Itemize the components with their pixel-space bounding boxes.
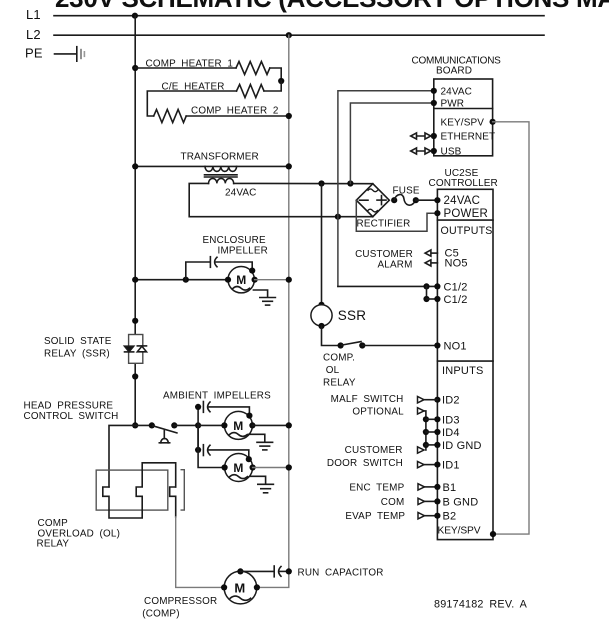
svg-text:OUTPUTS: OUTPUTS (441, 225, 493, 237)
comm board divider (434, 108, 493, 110)
node SSR coil bottom (318, 323, 324, 329)
wire compressor top to run cap (240, 570, 274, 572)
wire switch row left to OL (109, 425, 135, 487)
wire L2 (54, 34, 544, 36)
svg-text:BOARD: BOARD (436, 66, 472, 77)
svg-text:24VAC: 24VAC (441, 87, 472, 98)
node ambient1 right bus (286, 422, 292, 428)
svg-text:USB: USB (441, 147, 462, 158)
wire ambient1 ground lead (249, 434, 265, 442)
wire enclosure ground lead (253, 290, 267, 297)
wire motor3 right to bus (253, 467, 289, 469)
svg-text:POWER: POWER (444, 208, 488, 220)
svg-text:L2: L2 (26, 27, 41, 42)
node OL contact left (338, 342, 344, 348)
svg-text:PE: PE (25, 46, 43, 61)
node SSR bottom (132, 373, 138, 379)
svg-text:(COMP): (COMP) (142, 609, 179, 620)
triangle ENC TEMP (418, 484, 425, 490)
svg-text:CONTROLLER: CONTROLLER (429, 178, 498, 189)
svg-text:C1/2: C1/2 (444, 282, 468, 294)
comp overload relay coil box (96, 470, 168, 510)
capacitor RUN CAPACITOR (274, 566, 281, 577)
wire ambient2 ground lead (250, 476, 266, 484)
wire motor2 right to bus (252, 424, 288, 426)
wire switch row to contact (135, 424, 152, 426)
wire C12 second stub (427, 298, 438, 300)
wire SSR to OL contact (322, 326, 341, 346)
node motor2 cap terminal (246, 413, 252, 419)
svg-text:OPTIONAL: OPTIONAL (352, 406, 404, 417)
wire right bus (257, 35, 289, 587)
svg-text:B1: B1 (443, 482, 457, 494)
fuse symbol (394, 194, 416, 205)
wire ce heater right (264, 81, 281, 91)
triangle COM (418, 498, 425, 504)
motor M2 ambient impeller 1 (224, 411, 252, 439)
svg-text:NO1: NO1 (444, 341, 467, 353)
OL heater element 3 (170, 487, 176, 517)
wire comm PWR drop (350, 103, 433, 184)
node primary left (132, 163, 138, 169)
wire heater2 right (186, 115, 289, 117)
svg-text:M: M (236, 273, 246, 287)
wire ce heater left (147, 91, 236, 116)
svg-text:TRANSFORMER: TRANSFORMER (181, 152, 259, 163)
wire left bus lower (134, 363, 136, 425)
wire DOOR to ID1 (424, 464, 437, 466)
svg-text:KEY/SPV: KEY/SPV (441, 118, 485, 129)
node switch contact left (149, 422, 155, 428)
capacitor ambient impeller 2 (203, 445, 210, 456)
node heater2 / right bus (286, 113, 292, 119)
triangle EVAP TEMP (418, 513, 425, 519)
OL heater element 1 (103, 487, 142, 518)
node run cap bus junction (286, 568, 292, 574)
node bus / switch row junction (132, 422, 138, 428)
svg-text:EVAP TEMP: EVAP TEMP (345, 511, 405, 522)
svg-text:ETHERNET: ETHERNET (441, 132, 496, 143)
svg-text:M: M (234, 581, 245, 596)
triangle OPTIONAL (418, 408, 425, 414)
svg-text:ID2: ID2 (442, 395, 460, 407)
node ambient cap1 branch (195, 404, 201, 410)
wire cap to motor top (216, 262, 252, 271)
svg-text:INPUTS: INPUTS (442, 365, 484, 377)
node primary right (286, 163, 292, 169)
wire OPTIONAL to ID bus (424, 411, 426, 419)
wire ENC to B1 (425, 486, 438, 488)
svg-text:SSR: SSR (338, 308, 366, 323)
wire contact to branch (174, 424, 198, 426)
transformer secondary coil (209, 178, 234, 183)
triangle CUSTOMER (418, 447, 425, 453)
transformer core bars (205, 174, 238, 176)
resistor C/E HEATER (237, 85, 265, 98)
svg-text:SOLID STATE: SOLID STATE (44, 336, 112, 347)
svg-text:RECTIFIER: RECTIFIER (357, 219, 411, 230)
wire COM to B GND (425, 500, 438, 502)
wire EVAP to B2 (425, 515, 438, 517)
arrow C5 (425, 250, 437, 256)
wire run cap to bus (280, 570, 289, 572)
switch blade comp OL relay contact (342, 342, 361, 346)
svg-text:C1/2: C1/2 (444, 294, 468, 306)
svg-text:RELAY: RELAY (323, 378, 356, 389)
capacitor ambient impeller 1 (203, 402, 210, 413)
svg-text:ENC TEMP: ENC TEMP (349, 482, 404, 493)
svg-text:230V SCHEMATIC (ACCESSORY OPTI: 230V SCHEMATIC (ACCESSORY OPTIONS MAY VA… (55, 0, 609, 13)
wire comm 24VAC drop / C12 feed (338, 91, 434, 287)
rectifier bridge diamond (356, 184, 389, 217)
node heater1/ce junction (278, 78, 284, 84)
svg-text:24VAC: 24VAC (444, 195, 481, 207)
node row right bus (286, 277, 292, 283)
triangle DOOR SWITCH (418, 461, 425, 467)
node switch contact right (171, 422, 177, 428)
svg-text:HEAD PRESSURE: HEAD PRESSURE (24, 401, 114, 412)
svg-text:CONTROL SWITCH: CONTROL SWITCH (24, 411, 119, 422)
SSR coil circle (311, 305, 332, 326)
svg-text:IMPELLER: IMPELLER (218, 246, 268, 257)
wire cap1 to motor top (209, 407, 249, 416)
svg-text:ID GND: ID GND (442, 440, 482, 452)
wire SSR coil drop (321, 184, 323, 305)
wire PE (55, 53, 77, 55)
node ambient2 right bus (286, 464, 292, 470)
wire left bus upper (134, 16, 136, 334)
wire C12 vertical (426, 286, 428, 299)
wire cap2 to motor top (209, 450, 249, 459)
wire secondary left wrap (189, 183, 373, 216)
svg-text:ID4: ID4 (442, 427, 460, 439)
wire branch to motor2 left (198, 424, 224, 426)
UC2SE controller box (437, 189, 493, 539)
node heater1 left (132, 65, 138, 71)
motor M3 ambient impeller 2 (225, 454, 253, 482)
svg-text:ID3: ID3 (442, 414, 460, 426)
OL relay bracket (181, 470, 185, 510)
node motor3 cap terminal (246, 456, 252, 462)
switch blade head pressure (153, 426, 177, 433)
node 24VAC/C12 branch on AC return (335, 214, 341, 220)
node compressor right (254, 584, 260, 590)
svg-text:B2: B2 (443, 511, 457, 523)
resistor COMP HEATER 2 (154, 110, 187, 123)
wire enclosure cap branch (186, 262, 210, 280)
svg-text:AMBIENT IMPELLERS: AMBIENT IMPELLERS (163, 391, 271, 402)
node motor3 right (250, 464, 256, 470)
node motor2 right (249, 422, 255, 428)
node fuse left (391, 197, 397, 203)
wire heater1 right (270, 68, 281, 81)
wire ambient branch vertical (197, 407, 199, 450)
controller divider inputs (437, 360, 493, 362)
svg-text:RELAY: RELAY (37, 538, 70, 549)
arrow USB bidirectional (411, 148, 431, 154)
node cap branch (183, 277, 189, 283)
wire heater1 lead (135, 67, 236, 69)
arrow NO5 (425, 260, 437, 266)
svg-text:B GND: B GND (443, 496, 479, 508)
node SSR branch on AC line (318, 180, 324, 186)
wire L1 (54, 15, 544, 17)
wire MALF to ID2 (424, 399, 437, 401)
wire contact to NO1 (362, 345, 437, 347)
svg-text:89174182 REV. A: 89174182 REV. A (434, 599, 528, 611)
node compressor left (221, 584, 227, 590)
svg-text:PWR: PWR (441, 99, 465, 110)
communications board box (434, 79, 493, 156)
ground enclosure impeller (260, 298, 276, 306)
ground ambient impeller 2 (258, 484, 274, 493)
svg-text:CUSTOMER: CUSTOMER (345, 445, 403, 456)
node L1 / left bus junction (132, 13, 138, 19)
svg-text:OL: OL (326, 365, 340, 376)
OL heater element 2 (136, 463, 176, 497)
svg-text:COMP.: COMP. (323, 353, 355, 364)
svg-text:NO5: NO5 (445, 257, 468, 269)
node C12 a (423, 283, 429, 289)
motor compressor (224, 571, 257, 604)
svg-text:24VAC: 24VAC (225, 188, 256, 199)
node SSR top (132, 318, 138, 324)
svg-text:COMPRESSOR: COMPRESSOR (144, 596, 217, 607)
node motor cap terminal (249, 268, 255, 274)
node ambient cap2 branch (195, 447, 201, 453)
node PWR branch on AC line (347, 180, 353, 186)
wire enclosure impeller row (135, 279, 228, 281)
wire branch to motor3 left (198, 425, 225, 467)
svg-text:ID1: ID1 (442, 460, 460, 472)
wire motor right to bus (255, 279, 289, 281)
wire C1/2 link (338, 285, 438, 287)
transformer primary coil (205, 166, 237, 171)
node motor right (252, 277, 258, 283)
svg-text:RUN CAPACITOR: RUN CAPACITOR (298, 568, 384, 579)
wire fuse to controller 24VAC (416, 199, 438, 201)
node C12 b (423, 296, 429, 302)
capacitor enclosure impeller (210, 257, 217, 268)
motor M1 enclosure impeller (228, 267, 254, 293)
svg-text:KEY/SPV: KEY/SPV (438, 526, 481, 537)
ground ambient impeller 1 (257, 442, 273, 450)
svg-text:ALARM: ALARM (377, 259, 412, 270)
controller divider outputs (437, 219, 493, 221)
wire transformer primary line (135, 165, 289, 167)
node ambient branch junction (195, 422, 201, 428)
wire rectifier minus to POWER (356, 200, 437, 231)
svg-text:M: M (233, 461, 243, 475)
svg-text:RELAY (SSR): RELAY (SSR) (44, 349, 110, 360)
wire KEY/SPV loop (493, 122, 529, 534)
node compressor top (237, 568, 243, 574)
svg-text:COM: COM (381, 497, 405, 508)
wire secondary right to rectifier (234, 182, 373, 184)
wire ID bus vertical (425, 419, 427, 450)
triangle MALF (418, 397, 425, 403)
svg-text:DOOR SWITCH: DOOR SWITCH (327, 458, 403, 469)
ground PE earth symbol (77, 47, 85, 62)
node row left (132, 277, 138, 283)
svg-text:ENCLOSURE: ENCLOSURE (203, 235, 266, 246)
arrow ETHERNET bidirectional (411, 133, 431, 139)
solid state relay symbol (125, 335, 147, 364)
node fuse right (413, 197, 419, 203)
svg-text:L1: L1 (26, 7, 41, 22)
pressure actuator symbol (159, 431, 169, 443)
node L2 / right bus junction (286, 32, 292, 38)
svg-text:M: M (233, 419, 243, 433)
node motor3 left (222, 464, 228, 470)
node SSR coil top (318, 302, 324, 308)
svg-text:COMP HEATER 2: COMP HEATER 2 (191, 106, 279, 117)
node motor left (225, 277, 231, 283)
wire OL to compressor (176, 517, 224, 587)
node OL contact right (359, 342, 365, 348)
svg-text:MALF SWITCH: MALF SWITCH (331, 394, 404, 405)
resistor COMP HEATER 1 (236, 62, 270, 75)
node motor2 left (221, 422, 227, 428)
